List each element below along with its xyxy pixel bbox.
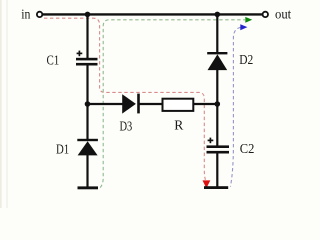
current path blue (load return) — [230, 27, 240, 186]
diode D3 — [122, 94, 140, 114]
svg-text:D3: D3 — [120, 118, 133, 133]
junction dot middle-right node — [215, 101, 221, 107]
wire R to right node — [193, 103, 217, 105]
wire C2 to bottom terminal — [216, 153, 218, 187]
capacitor C2 polarity plus — [208, 138, 214, 144]
wire top rail to C1 — [86, 14, 88, 58]
diode D2 — [207, 52, 227, 70]
capacitor C1 — [76, 58, 98, 66]
left page edge shading — [0, 0, 2, 208]
wire D2 to middle-right node — [216, 70, 218, 146]
diode D1 — [77, 139, 98, 156]
svg-text:R: R — [174, 117, 184, 132]
svg-text:C1: C1 — [47, 52, 60, 67]
svg-text:C2: C2 — [240, 141, 255, 156]
junction dot top-left node — [85, 12, 91, 18]
resistor R — [163, 99, 194, 111]
input terminal circle — [37, 12, 42, 17]
svg-text:out: out — [275, 7, 291, 22]
svg-text:in: in — [21, 6, 30, 21]
bottom terminal bar right — [204, 186, 228, 189]
wire D3 to R — [139, 103, 164, 105]
red arrowhead — [203, 180, 211, 188]
blue arrowhead — [240, 24, 247, 30]
current path red (charge path in) — [44, 18, 205, 180]
green arrowhead — [245, 17, 252, 23]
current path green (discharge to out) — [100, 20, 245, 188]
wire middle node to D3 — [88, 103, 124, 105]
wire top rail to D2 — [216, 14, 218, 53]
wire C1 to middle node — [86, 66, 88, 142]
svg-text:D1: D1 — [56, 142, 69, 157]
svg-text:D2: D2 — [239, 52, 253, 67]
bottom terminal bar left — [78, 186, 99, 189]
junction dot top-right node — [215, 12, 221, 18]
left page edge faint rule — [6, 0, 7, 208]
output terminal circle — [263, 12, 268, 17]
wire D1 to bottom terminal — [86, 155, 88, 187]
top rail wire in-to-out — [43, 13, 262, 15]
junction dot middle-left node — [85, 101, 91, 107]
capacitor C2 — [207, 145, 230, 153]
capacitor C1 polarity plus — [77, 51, 83, 57]
